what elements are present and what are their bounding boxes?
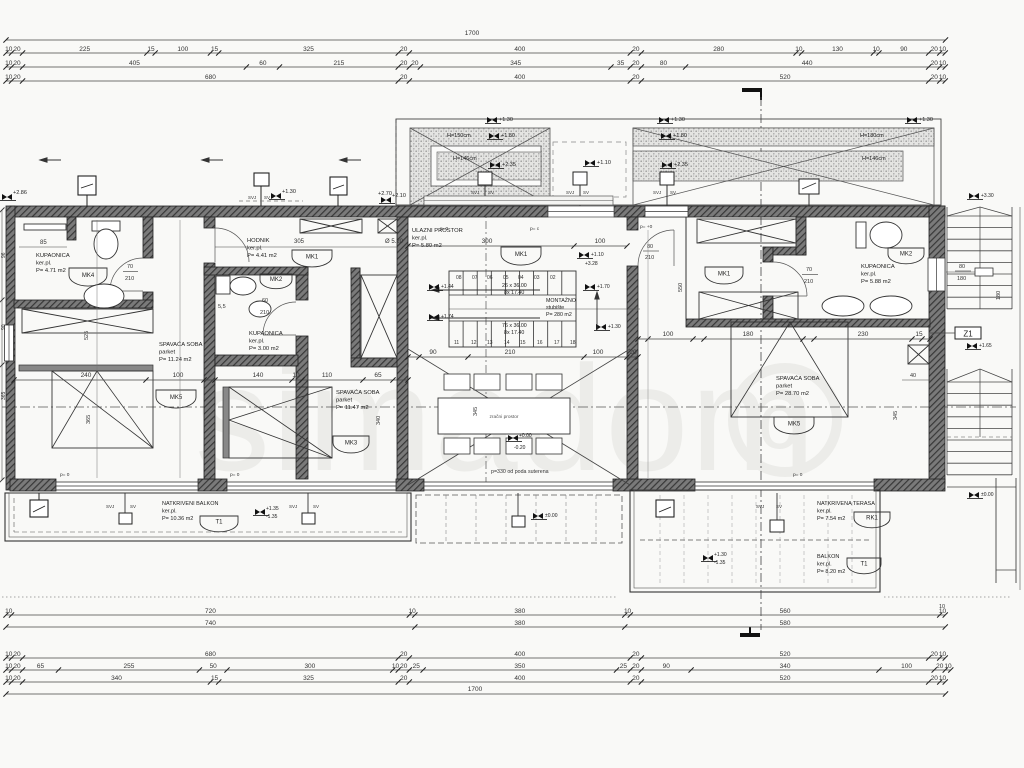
wall hodnik to closet (351, 268, 360, 275)
svg-text:Ø 5.20: Ø 5.20 (385, 239, 404, 245)
svg-text:+1.30: +1.30 (919, 117, 933, 123)
svg-text:15: 15 (520, 340, 526, 346)
svg-text:20: 20 (632, 60, 640, 67)
svg-text:60: 60 (259, 60, 267, 67)
svg-text:NATKRIVENA TERASA: NATKRIVENA TERASA (817, 501, 875, 507)
entry elevation markers (579, 252, 589, 258)
svg-text:345: 345 (893, 411, 899, 420)
bathroom2 label MK2 (260, 274, 292, 289)
svg-text:215: 215 (333, 60, 344, 67)
svg-text:ker.pl.: ker.pl. (247, 246, 263, 252)
svg-text:70: 70 (806, 267, 812, 273)
bathroom1 radiator (24, 224, 66, 230)
svg-text:ker.pl.: ker.pl. (162, 509, 177, 515)
svg-text:10: 10 (939, 651, 947, 658)
svg-text:p=0: p=0 (440, 226, 448, 232)
svg-text:90: 90 (900, 46, 908, 53)
svg-text:26 x 36.00: 26 x 36.00 (502, 283, 527, 289)
svg-text:SVJ: SVJ (289, 504, 297, 509)
svg-text:1700: 1700 (468, 686, 483, 693)
right terrace grid (659, 495, 661, 585)
svg-text:H=180cm: H=180cm (860, 133, 884, 139)
bathroom1 stub wall (67, 217, 76, 240)
svg-text:BALKON: BALKON (817, 554, 839, 560)
right stairs marker Z1 (967, 343, 977, 349)
svg-text:20: 20 (400, 663, 408, 670)
svg-text:10: 10 (939, 675, 947, 682)
window left wall (5, 325, 14, 361)
svg-text:210: 210 (804, 279, 813, 285)
svg-text:340: 340 (780, 663, 791, 670)
svg-text:12: 12 (471, 340, 477, 346)
svg-text:+2.86: +2.86 (13, 190, 27, 196)
svg-text:+1.44: +1.44 (441, 284, 454, 290)
entry right wall upper stub (627, 217, 638, 230)
svg-text:P= 8.20 m2: P= 8.20 m2 (817, 569, 845, 575)
svg-text:MK4: MK4 (82, 273, 95, 279)
svg-text:365: 365 (1, 391, 7, 400)
svg-text:P= 28.70 m2: P= 28.70 m2 (776, 391, 809, 397)
svg-text:20: 20 (13, 675, 21, 682)
staircase outline (449, 271, 576, 347)
svg-text:65: 65 (37, 663, 45, 670)
middle terrace outline (416, 495, 622, 543)
section line vertical (760, 97, 762, 630)
svg-text:20: 20 (411, 60, 419, 67)
wall bedroom3/bath3 vertical (763, 247, 773, 262)
dim row below stairs (408, 356, 638, 358)
svg-text:P= 7.54 m2: P= 7.54 m2 (817, 516, 845, 522)
svg-text:20: 20 (931, 60, 939, 67)
bottom window 2 (227, 482, 396, 490)
canopy right hatched block (633, 128, 934, 205)
svg-text:76 x 36.00: 76 x 36.00 (502, 323, 527, 329)
svg-text:140: 140 (253, 372, 264, 379)
svg-text:P= 280 m2: P= 280 m2 (546, 312, 572, 318)
balkon T1 (847, 558, 881, 574)
svg-text:210: 210 (645, 255, 654, 261)
svg-text:SV: SV (583, 190, 589, 195)
hodnik washbasin MK1 (292, 250, 332, 267)
svg-text:520: 520 (780, 675, 791, 682)
svg-text:p= 0: p= 0 (230, 472, 240, 478)
svg-text:KUPAONICA: KUPAONICA (36, 253, 70, 259)
svg-text:20: 20 (400, 60, 408, 67)
right stairs upper flight (946, 207, 948, 309)
arrow west 2 (202, 158, 223, 162)
svg-text:10: 10 (944, 663, 952, 670)
svg-text:1700: 1700 (465, 30, 480, 37)
dining table (438, 398, 570, 434)
svg-text:p=330 od poda suterena: p=330 od poda suterena (491, 469, 549, 475)
right stairs dashed mid line (947, 436, 1012, 438)
svg-text:5,5: 5,5 (218, 304, 226, 310)
svg-text:380: 380 (514, 620, 525, 627)
svg-text:-1.35: -1.35 (266, 514, 278, 520)
bedroom1 MK5 (156, 390, 196, 408)
svg-text:p= 0: p= 0 (60, 472, 70, 478)
svg-text:100: 100 (593, 349, 604, 356)
door arc bathroom1 (110, 258, 143, 291)
svg-text:10: 10 (939, 60, 947, 67)
interior wall B (bath2 right) (296, 267, 308, 300)
door arc hall to bathroom1 zone (215, 228, 249, 262)
svg-text:65: 65 (374, 372, 382, 379)
svg-text:P= 3.00 m2: P= 3.00 m2 (249, 346, 279, 352)
svg-text:MK2: MK2 (900, 252, 913, 258)
svg-text:525: 525 (84, 331, 90, 340)
svg-text:+2.70: +2.70 (378, 191, 392, 197)
svg-text:+3.30: +3.30 (981, 193, 994, 199)
svg-text:90: 90 (663, 663, 671, 670)
svg-text:+1.74: +1.74 (441, 314, 454, 320)
svg-text:MK1: MK1 (306, 254, 319, 260)
stair marker 4 (596, 324, 606, 330)
bottom dim row B (6, 626, 945, 628)
svg-text:+1.30: +1.30 (499, 117, 513, 123)
bedroom1 bed headboard (19, 365, 153, 371)
svg-text:15: 15 (915, 331, 923, 338)
bedroom3 dim guide vertical (647, 230, 649, 478)
bedroom3 closet xbox top (697, 219, 796, 243)
bathroom1 right wall upper (143, 217, 153, 258)
svg-text:740: 740 (205, 620, 216, 627)
wall bath3 vertical upper (796, 217, 806, 255)
wall below bathroom2 (215, 355, 298, 366)
svg-text:80: 80 (959, 264, 965, 270)
svg-text:+1.80: +1.80 (501, 133, 515, 139)
svg-text:340: 340 (376, 416, 382, 425)
svg-text:Z1: Z1 (963, 330, 973, 339)
door arc bath2 (263, 302, 296, 335)
svg-text:+2.10: +2.10 (392, 193, 406, 199)
bottom dim row C (6, 657, 945, 659)
svg-text:210: 210 (125, 276, 134, 282)
balkon marker (703, 555, 713, 561)
svg-text:ker.pl.: ker.pl. (817, 562, 832, 568)
svg-text:T1: T1 (215, 520, 223, 526)
right stairs lower walls (995, 478, 997, 583)
dimension row top D (6, 80, 945, 82)
stair marker 1 (429, 284, 439, 290)
canopy elevation markers (487, 117, 497, 123)
svg-text:HODNIK: HODNIK (247, 238, 270, 244)
svg-text:10: 10 (5, 46, 13, 53)
svg-text:+0.00: +0.00 (519, 433, 532, 439)
svg-text:8x 17.40: 8x 17.40 (504, 290, 524, 296)
balcony post 2 (302, 513, 315, 524)
svg-text:20: 20 (13, 651, 21, 658)
svg-text:+3.28: +3.28 (585, 261, 598, 267)
wall below closet (351, 358, 408, 367)
svg-text:p= 0: p= 0 (793, 472, 803, 478)
closet nook side line (685, 217, 687, 319)
bathroom1 washbasin MK4 (69, 268, 107, 286)
svg-text:20: 20 (13, 60, 21, 67)
svg-text:10: 10 (939, 604, 945, 610)
svg-text:15: 15 (211, 46, 219, 53)
svg-text:325: 325 (303, 675, 314, 682)
svg-text:SVJ: SVJ (653, 190, 661, 195)
svg-text:340: 340 (111, 675, 122, 682)
svg-text:SVJ: SVJ (566, 190, 574, 195)
top wall right segment (614, 206, 945, 217)
bottom window 1 (56, 482, 198, 490)
svg-text:-0.20: -0.20 (514, 445, 526, 451)
axis line vertical center (485, 205, 487, 492)
svg-text:ker.pl.: ker.pl. (412, 236, 428, 242)
bedroom3 washbasin MK1 (705, 267, 743, 284)
dim row entry top (408, 245, 627, 247)
svg-text:SV: SV (488, 190, 494, 195)
staircase arrow left lower (432, 316, 540, 320)
svg-text:110: 110 (322, 372, 333, 379)
bottom wall pillar 5 (874, 479, 945, 491)
svg-text:100: 100 (901, 663, 912, 670)
svg-text:MK2: MK2 (270, 277, 283, 283)
svg-text:100: 100 (595, 238, 606, 245)
bottom dim row E (6, 681, 945, 683)
window sill dashes above top wall (239, 200, 303, 202)
svg-text:03: 03 (534, 275, 540, 281)
middle terrace post (512, 516, 525, 527)
svg-text:P= 11.24 m2: P= 11.24 m2 (159, 357, 192, 363)
bathroom3 MK2 (888, 248, 924, 264)
svg-text:+2.35: +2.35 (674, 162, 688, 168)
right stairs lower flight (946, 369, 948, 475)
exterior lamp box 3 (330, 177, 347, 195)
entry right wall lower (627, 266, 638, 479)
svg-text:20: 20 (632, 651, 640, 658)
svg-text:parket: parket (776, 384, 793, 390)
svg-text:10: 10 (5, 74, 13, 81)
svg-text:P= 4.41 m2: P= 4.41 m2 (247, 253, 277, 259)
svg-text:p= c: p= c (530, 227, 540, 232)
dimension row top C (6, 66, 945, 68)
svg-text:440: 440 (802, 60, 813, 67)
section marker top (742, 88, 762, 92)
svg-text:305: 305 (294, 239, 305, 245)
svg-text:±0.00: ±0.00 (981, 492, 994, 498)
svg-text:+1.30: +1.30 (714, 552, 727, 558)
svg-text:07: 07 (472, 275, 478, 281)
svg-text:H=150cm: H=150cm (447, 133, 471, 139)
svg-text:20: 20 (936, 663, 944, 670)
svg-text:300: 300 (482, 238, 493, 245)
svg-text:20: 20 (629, 349, 637, 356)
bathroom2 toilet (216, 276, 230, 294)
entrance threshold lines (424, 196, 613, 205)
svg-text:100: 100 (663, 331, 674, 338)
small xbox near entry wall (378, 219, 397, 233)
svg-text:H=146cm: H=146cm (453, 156, 477, 162)
svg-text:20: 20 (931, 675, 939, 682)
entrance opening in top wall (548, 206, 614, 217)
closet left wall (351, 268, 360, 358)
svg-text:MK1: MK1 (718, 271, 731, 277)
svg-text:SPAVAĆA SOBA: SPAVAĆA SOBA (336, 389, 380, 396)
svg-text:ker.pl.: ker.pl. (861, 272, 877, 278)
svg-text:10: 10 (5, 663, 13, 670)
staircase treads (462, 271, 464, 295)
svg-text:SPAVAĆA SOBA: SPAVAĆA SOBA (159, 341, 203, 348)
stair up arrow (595, 292, 599, 330)
living marker 0.00 (508, 435, 518, 441)
svg-text:580: 580 (780, 620, 791, 627)
wall below bathroom1 (14, 300, 153, 308)
bottom dim row D (6, 669, 951, 671)
arrow west 3 (340, 158, 361, 162)
svg-text:ker.pl.: ker.pl. (817, 509, 832, 515)
svg-text:20: 20 (13, 74, 21, 81)
svg-text:10: 10 (939, 74, 947, 81)
bathroom2 sink (249, 301, 271, 317)
svg-text:20: 20 (13, 46, 21, 53)
svg-text:SV: SV (670, 190, 676, 195)
entry hall left wall (397, 217, 408, 479)
window top wall right (645, 206, 688, 217)
svg-text:MK5: MK5 (788, 421, 801, 427)
svg-text:20: 20 (13, 663, 21, 670)
svg-text:520: 520 (780, 74, 791, 81)
bottom wall pillar 3 (396, 479, 424, 491)
svg-text:20: 20 (632, 46, 640, 53)
svg-text:+1.30: +1.30 (282, 189, 296, 195)
window right wall (928, 258, 945, 291)
living room cross diagonal 1 (408, 349, 630, 485)
svg-text:P= 10.36 m2: P= 10.36 m2 (162, 516, 193, 522)
dimension row top B (6, 52, 945, 54)
canopy left hatched block (410, 128, 550, 205)
middle terrace marker (533, 513, 543, 519)
section marker bottom (740, 633, 760, 637)
bottom wall pillar 1 (10, 479, 56, 491)
svg-text:+1.80: +1.80 (673, 133, 687, 139)
bedroom3 bed triangle (731, 322, 848, 417)
svg-text:stubište: stubište (546, 305, 564, 311)
svg-text:parket: parket (159, 350, 176, 356)
svg-text:130: 130 (832, 46, 843, 53)
svg-text:560: 560 (780, 608, 791, 615)
svg-text:240: 240 (81, 372, 92, 379)
svg-text:10: 10 (5, 675, 13, 682)
bathroom3 sink 2 (870, 296, 912, 316)
svg-text:18: 18 (570, 340, 576, 346)
svg-text:255: 255 (124, 663, 135, 670)
svg-text:210: 210 (260, 310, 269, 316)
bedroom3 closet xbox mid (699, 292, 798, 319)
svg-text:+1.35: +1.35 (266, 506, 279, 512)
svg-text:680: 680 (205, 74, 216, 81)
svg-text:40: 40 (910, 373, 916, 379)
svg-text:ker.pl.: ker.pl. (249, 339, 265, 345)
svg-text:SVJ: SVJ (248, 195, 256, 200)
svg-text:SV: SV (130, 504, 136, 509)
svg-text:20: 20 (400, 46, 408, 53)
svg-text:RK1: RK1 (866, 516, 878, 522)
svg-text:14: 14 (504, 340, 510, 346)
svg-text:P= 5.88 m2: P= 5.88 m2 (861, 279, 891, 285)
svg-text:350: 350 (514, 663, 525, 670)
svg-text:17: 17 (554, 340, 560, 346)
svg-text:SVJ: SVJ (471, 190, 479, 195)
bottom window 3 (424, 482, 613, 490)
Z1 box (955, 327, 981, 339)
staircase arrow left upper (432, 288, 540, 292)
bottom dim row A (6, 614, 945, 616)
svg-text:SV: SV (313, 504, 319, 509)
svg-text:180: 180 (957, 276, 966, 282)
svg-text:20: 20 (400, 675, 408, 682)
bottom wall pillar 4 (613, 479, 695, 491)
svg-text:+1.10: +1.10 (597, 160, 611, 166)
right stairs marker top (969, 193, 979, 199)
svg-text:MK1: MK1 (515, 252, 528, 258)
svg-text:210: 210 (505, 349, 516, 356)
svg-text:25: 25 (413, 663, 421, 670)
bottom wall pillar 2 (198, 479, 227, 491)
svg-text:20: 20 (931, 74, 939, 81)
svg-text:08: 08 (456, 275, 462, 281)
elevation marker +1.30 left (271, 193, 281, 199)
right terrace RK1 (854, 512, 890, 528)
svg-text:06: 06 (487, 275, 493, 281)
left exterior wall (6, 206, 15, 490)
svg-text:550: 550 (678, 283, 684, 292)
right stairs handrail mid (979, 207, 981, 309)
bathroom3 sink 1 (822, 296, 864, 316)
door arc bath3 (773, 262, 807, 296)
right terrace outline (630, 490, 880, 592)
right exterior wall (929, 206, 945, 484)
svg-text:+1.30: +1.30 (608, 324, 621, 330)
svg-text:25: 25 (620, 663, 628, 670)
svg-text:225: 225 (79, 46, 90, 53)
bedroom1 bed (52, 371, 153, 448)
svg-text:11: 11 (454, 340, 459, 346)
hodnik dim line (215, 246, 397, 248)
svg-text:20: 20 (400, 74, 408, 81)
svg-text:90: 90 (429, 349, 437, 356)
svg-text:+1.70: +1.70 (597, 284, 610, 290)
svg-text:400: 400 (514, 651, 525, 658)
svg-text:20: 20 (632, 675, 640, 682)
svg-text:10: 10 (873, 46, 881, 53)
svg-text:+1.30: +1.30 (671, 117, 685, 123)
svg-text:10: 10 (5, 60, 13, 67)
svg-text:10: 10 (292, 372, 300, 379)
svg-text:680: 680 (205, 651, 216, 658)
svg-text:100: 100 (173, 372, 184, 379)
svg-text:10: 10 (5, 608, 13, 615)
entry washbasin MK1 (501, 247, 541, 265)
bathroom3 toilet (856, 222, 866, 248)
svg-text:MK3: MK3 (345, 440, 358, 446)
svg-text:300: 300 (304, 663, 315, 670)
dining chairs (444, 374, 470, 390)
svg-text:SVJ: SVJ (106, 504, 114, 509)
exterior lamp box 1 (78, 176, 96, 195)
balcony marker (255, 509, 265, 515)
svg-text:400: 400 (514, 74, 525, 81)
svg-text:10: 10 (795, 46, 803, 53)
svg-text:NATKRIVENI BALKON: NATKRIVENI BALKON (162, 501, 218, 507)
door arc entry to bedroom3 (638, 230, 674, 266)
centre axis horizontal (2, 406, 1016, 408)
svg-text:KUPAONICA: KUPAONICA (249, 331, 283, 337)
balcony T1 (200, 516, 238, 532)
exterior lamp box 2 (254, 173, 269, 186)
